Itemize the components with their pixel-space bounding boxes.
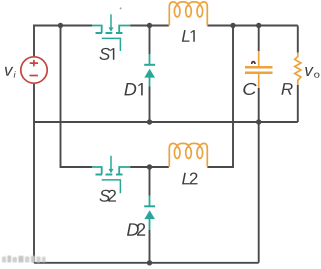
label glyph D2-D [127,223,139,235]
wire D1 top lead [149,26,151,55]
capacitor C polarity mark [252,62,255,64]
wire source bottom to bottom-left corner [33,83,35,263]
label glyph L1-L [182,30,190,42]
wire input feed to S2 branch [61,26,93,168]
transistor S1 arrow [109,27,114,31]
wire L1 right to R corner [207,25,297,27]
label glyph S2-S [99,190,110,202]
label glyph S1-1 [110,48,114,60]
voltage source vi [21,57,47,83]
label glyph S2-2 [108,190,116,202]
stray speck [120,7,122,9]
label glyph vi-i [14,71,16,78]
label glyph L2-2 [190,173,198,185]
label glyph S1-S [99,48,110,60]
label glyph L2-L [182,173,190,185]
inductor L1 [169,2,207,26]
inductor L2 [169,143,207,167]
transistor S2 arrow [109,169,114,173]
resistor R [295,53,301,85]
diode D1 [144,54,155,87]
node A2 [147,164,152,169]
capacitor C [245,51,273,88]
label glyph R-R [281,83,292,95]
diode D2 triangle [144,210,155,219]
node C bottom [256,119,261,124]
label glyph L1-1 [191,30,195,42]
wire source top to S1 left [34,26,92,58]
wire C top lead [258,26,260,52]
node D1 bottom [147,119,152,124]
label glyph vo-v [305,67,313,76]
node D2 bottom [147,260,152,265]
transistor S1 [92,14,130,51]
wire bottom rail [34,262,259,264]
node A1 [147,23,152,28]
wire L2 right to output riser [207,26,233,168]
wire mid rail [34,121,298,123]
node C top [256,23,261,28]
label glyph D1-D [124,83,136,95]
label glyph vi-v [5,67,13,76]
node input junction [58,23,63,28]
transistor S2 [92,156,130,194]
wire R bottom lead [297,85,299,122]
wire S1 right to L1 left [130,25,169,27]
diode D2 [144,196,155,231]
wire D1 bottom lead [149,87,151,123]
label glyph D2-2 [137,223,145,236]
diode D1 triangle [144,69,155,78]
label glyph D1-1 [138,83,142,95]
wire D2 bottom lead [149,230,151,263]
wire C bottom lead [258,88,260,263]
node output top [230,23,235,28]
wire R top lead [297,26,299,53]
wire D2 top lead [149,167,151,196]
wire S2 right to L2 left [130,166,169,168]
label glyph vo-o [314,73,319,78]
label glyph C-C [243,83,256,95]
